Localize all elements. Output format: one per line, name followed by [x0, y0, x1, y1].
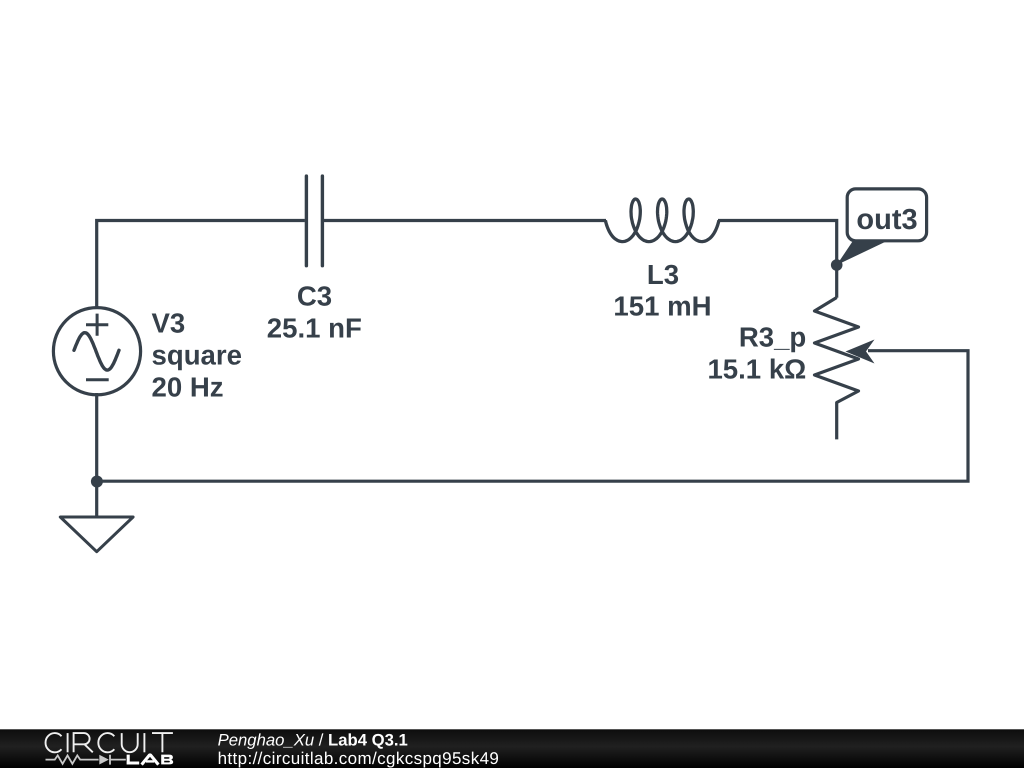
svg-text:Penghao_Xu / Lab4 Q3.1: Penghao_Xu / Lab4 Q3.1 — [218, 731, 408, 750]
potentiometer R3_p zigzag body — [815, 298, 859, 440]
label C3 value — [267, 281, 362, 344]
label V3 square 20 Hz — [152, 307, 243, 402]
V3 sine wave — [74, 333, 119, 370]
capacitor C3 — [306, 176, 322, 266]
label L3 value — [613, 259, 711, 322]
wire from wiper through right side to bottom rail — [97, 351, 968, 482]
V3 plus sign — [86, 314, 108, 336]
node out3 junction dot — [831, 259, 843, 271]
svg-text:V3: V3 — [152, 307, 186, 338]
svg-text:out3: out3 — [856, 204, 917, 236]
svg-text:L3: L3 — [647, 259, 679, 290]
svg-text:R3_p: R3_p — [739, 322, 806, 353]
svg-text:square: square — [152, 339, 243, 370]
label R3_p value — [707, 322, 806, 385]
svg-text:C3: C3 — [297, 281, 332, 312]
potentiometer R3_p wiper arrow — [846, 340, 875, 364]
svg-text:151 mH: 151 mH — [613, 290, 711, 321]
svg-text:15.1 kΩ: 15.1 kΩ — [707, 354, 806, 385]
V3 minus sign — [86, 378, 109, 381]
wire from capacitor C3 right plate to inductor L3 — [324, 219, 606, 222]
CircuitLab logo resistor-diode squiggle — [46, 755, 126, 765]
svg-text:25.1 nF: 25.1 nF — [267, 313, 362, 344]
ground junction dot — [91, 476, 103, 488]
wire from V3 top terminal to capacitor C3 left plate — [97, 221, 305, 310]
CircuitLab logo LAB text — [127, 755, 174, 765]
svg-text:http://circuitlab.com/cgkcspq9: http://circuitlab.com/cgkcspq95sk49 — [218, 749, 500, 768]
CircuitLab logo CIRCUIT letters — [46, 733, 173, 752]
voltage source V3 circle — [53, 308, 140, 395]
inductor L3 coil — [605, 199, 719, 242]
ground symbol — [60, 517, 133, 552]
out3 net label callout — [837, 189, 927, 265]
svg-text:20 Hz: 20 Hz — [152, 371, 224, 402]
wire from inductor L3 to node out3 and down to potentiometer top — [718, 221, 837, 298]
wire from V3 bottom terminal to ground junction — [95, 393, 98, 517]
